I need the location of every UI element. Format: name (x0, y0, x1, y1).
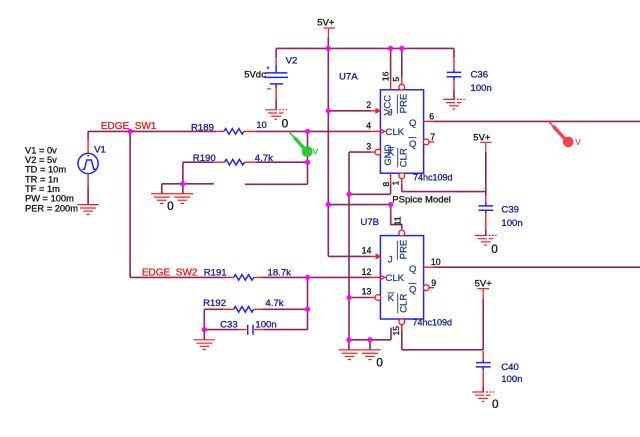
junction R192 output node (305, 307, 310, 312)
svg-text:CLR: CLR (398, 294, 409, 313)
svg-text:3: 3 (366, 141, 371, 151)
junction R190 output node (305, 160, 310, 165)
svg-text:11: 11 (393, 216, 403, 225)
green probe (290, 132, 296, 139)
svg-text:PW = 100m: PW = 100m (25, 194, 74, 204)
svg-text:CLK: CLK (385, 273, 404, 284)
svg-text:100n: 100n (501, 374, 522, 385)
svg-text:R190: R190 (193, 153, 216, 164)
resistor R192 (204, 308, 223, 310)
ground under C40 (472, 392, 494, 402)
svg-text:12: 12 (362, 267, 372, 277)
wire 5V J-net vertical (328, 48, 371, 256)
svg-text:5V+: 5V+ (317, 18, 335, 29)
junction pin16 riser on top bus (388, 46, 393, 51)
svg-text:74hc109d: 74hc109d (413, 172, 453, 182)
junction R190 ground link (180, 181, 185, 186)
junction EDGE_SW1 / vertical feed (128, 129, 133, 134)
ground under C36 (443, 99, 465, 109)
svg-text:C36: C36 (471, 70, 489, 81)
wire R191-R192-C33 vertical (307, 277, 309, 329)
svg-text:V: V (313, 147, 319, 156)
junction K net to pin8 (346, 192, 351, 197)
svg-text:100n: 100n (471, 83, 492, 94)
svg-text:C40: C40 (501, 362, 519, 373)
svg-text:15: 15 (391, 326, 401, 336)
U7A pin 6 Q output (424, 120, 434, 122)
wire 5V bus top (276, 47, 454, 49)
U7B pin 12 CLK (371, 276, 380, 278)
capacitor C33 (204, 309, 307, 329)
U7A pin 4 CLK (371, 130, 380, 132)
ground right under U7B (359, 350, 380, 360)
wire pin2 stub from vertical (328, 110, 371, 112)
capacitor C39 (485, 152, 487, 196)
svg-text:2: 2 (366, 100, 371, 110)
svg-text:9: 9 (431, 278, 436, 288)
svg-text:4.7k: 4.7k (265, 298, 283, 309)
wire EDGE_SW2 net (130, 276, 371, 278)
svg-text:4.7k: 4.7k (255, 153, 273, 164)
svg-text:CLR: CLR (398, 148, 409, 167)
wire Q output to right edge (433, 120, 640, 122)
U7B pin 9 Qbar (423, 285, 429, 291)
svg-text:PRE: PRE (398, 240, 409, 260)
U7A pin 7 Qbar (423, 139, 429, 145)
wire Q output U7B to right edge (433, 266, 640, 268)
junction K net pin13 tap (346, 295, 351, 300)
svg-text:7: 7 (430, 132, 435, 142)
svg-text:CLK: CLK (385, 127, 404, 138)
svg-text:Q: Q (409, 285, 416, 296)
svg-text:J: J (388, 108, 393, 119)
svg-text:0: 0 (167, 199, 174, 213)
red probe (549, 121, 555, 127)
U7B pin 14 J (371, 255, 376, 257)
svg-text:R189: R189 (191, 122, 214, 133)
svg-text:V1 = 0v: V1 = 0v (25, 145, 57, 155)
resistor R189 (216, 130, 255, 132)
svg-text:Q: Q (409, 118, 416, 129)
wire EDGE_SW1 net (88, 131, 371, 139)
svg-text:C33: C33 (220, 319, 238, 330)
capacitor C36 (453, 48, 455, 58)
U7A pin 1 CLR (399, 173, 405, 179)
U7B pin 11 PRE jog (391, 205, 402, 230)
junction R189 output node (305, 129, 310, 134)
svg-text:100n: 100n (501, 218, 522, 229)
resistor R190 (183, 162, 214, 184)
V2 minus mark (267, 88, 271, 90)
ground left of pair (151, 194, 172, 204)
svg-text:8: 8 (381, 182, 391, 187)
svg-text:10: 10 (431, 257, 441, 267)
svg-text:0: 0 (282, 117, 289, 131)
svg-text:U7B: U7B (360, 217, 379, 228)
wire PSpice row (328, 204, 390, 206)
ground under V1 (77, 205, 98, 215)
svg-text:PSpice Model: PSpice Model (392, 195, 451, 206)
svg-text:TF = 1m: TF = 1m (25, 184, 60, 194)
svg-text:C39: C39 (501, 204, 519, 215)
junction 5V+ stem on top bus (326, 46, 331, 51)
svg-text:0: 0 (492, 397, 499, 411)
svg-text:14: 14 (362, 246, 372, 256)
wire K to pin8 link (349, 193, 391, 195)
U7B pin 15 CLR (399, 319, 405, 325)
svg-text:16: 16 (381, 71, 391, 81)
wire K net vertical (348, 152, 350, 340)
U7A pin 8 GND (390, 173, 392, 183)
svg-text:Q: Q (409, 139, 416, 150)
svg-text:13: 13 (362, 287, 372, 297)
wire stub under U7B (349, 328, 391, 340)
ground under C39 (475, 236, 497, 246)
wire ground risers U7B (349, 340, 370, 350)
wire 5V+ stem (327, 37, 329, 48)
svg-text:4: 4 (366, 121, 371, 131)
svg-text:6: 6 (429, 111, 434, 121)
U7B pin 10 Q output (424, 266, 434, 268)
U7A pin 16 VCC (390, 48, 392, 79)
svg-text:5: 5 (391, 77, 401, 82)
V2 plus mark (267, 66, 270, 69)
svg-text:R192: R192 (203, 298, 226, 309)
svg-text:U7A: U7A (339, 71, 358, 82)
ground left under U7B (339, 350, 360, 360)
U7A pin 5 PRE (401, 48, 403, 77)
svg-text:0: 0 (376, 355, 383, 369)
wire ground link under R190 (162, 184, 214, 194)
svg-text:PRE: PRE (398, 94, 409, 114)
svg-text:5Vdc: 5Vdc (244, 70, 266, 81)
wire R190 node vertical and stub (245, 131, 308, 184)
voltage source V1 (87, 139, 89, 153)
junction R191 output node (305, 275, 310, 280)
voltage source V2 (275, 48, 277, 58)
junction pin2 J tap (326, 108, 331, 113)
svg-text:Q: Q (409, 264, 416, 275)
flip-flop U7A (380, 90, 423, 173)
ground right of pair (172, 194, 193, 204)
junction C33 left node (202, 327, 207, 332)
svg-text:V: V (575, 138, 581, 147)
wire pin3 link (349, 151, 371, 153)
U7A pin 3 K (371, 151, 375, 153)
svg-text:TR = 1n: TR = 1n (25, 174, 58, 184)
svg-text:EDGE_SW2: EDGE_SW2 (142, 268, 198, 279)
svg-text:TD = 10m: TD = 10m (25, 165, 66, 175)
svg-text:V2 = 5v: V2 = 5v (25, 155, 57, 165)
wire long vertical to EDGE_SW2 (129, 131, 131, 277)
svg-text:J: J (388, 255, 393, 266)
resistor R191 (226, 276, 262, 278)
junction ground row right (367, 337, 372, 342)
junction pin5 riser on top bus (399, 46, 404, 51)
svg-text:74hc109d: 74hc109d (413, 317, 453, 327)
svg-text:100n: 100n (255, 319, 276, 330)
svg-text:K: K (388, 148, 395, 159)
svg-text:V2: V2 (286, 56, 298, 67)
junction PSpice row left (326, 202, 331, 207)
svg-text:1: 1 (391, 181, 401, 186)
junction ground row left (346, 337, 351, 342)
U7A pin 2 J (371, 110, 376, 112)
svg-text:R191: R191 (204, 267, 227, 278)
flip-flop U7B (380, 236, 423, 319)
junction PSpice row pin11 tap (388, 202, 393, 207)
svg-text:V1: V1 (94, 144, 106, 155)
svg-text:18.7k: 18.7k (268, 268, 292, 279)
svg-text:K: K (388, 293, 395, 304)
svg-text:PER = 200m: PER = 200m (25, 203, 78, 213)
ground 0 under V2 (265, 110, 287, 120)
svg-text:0: 0 (491, 242, 498, 256)
svg-text:10: 10 (256, 120, 267, 131)
ground under R192/C33 (194, 340, 215, 350)
U7B pin 13 K (349, 297, 371, 299)
capacitor C40 (482, 298, 484, 350)
